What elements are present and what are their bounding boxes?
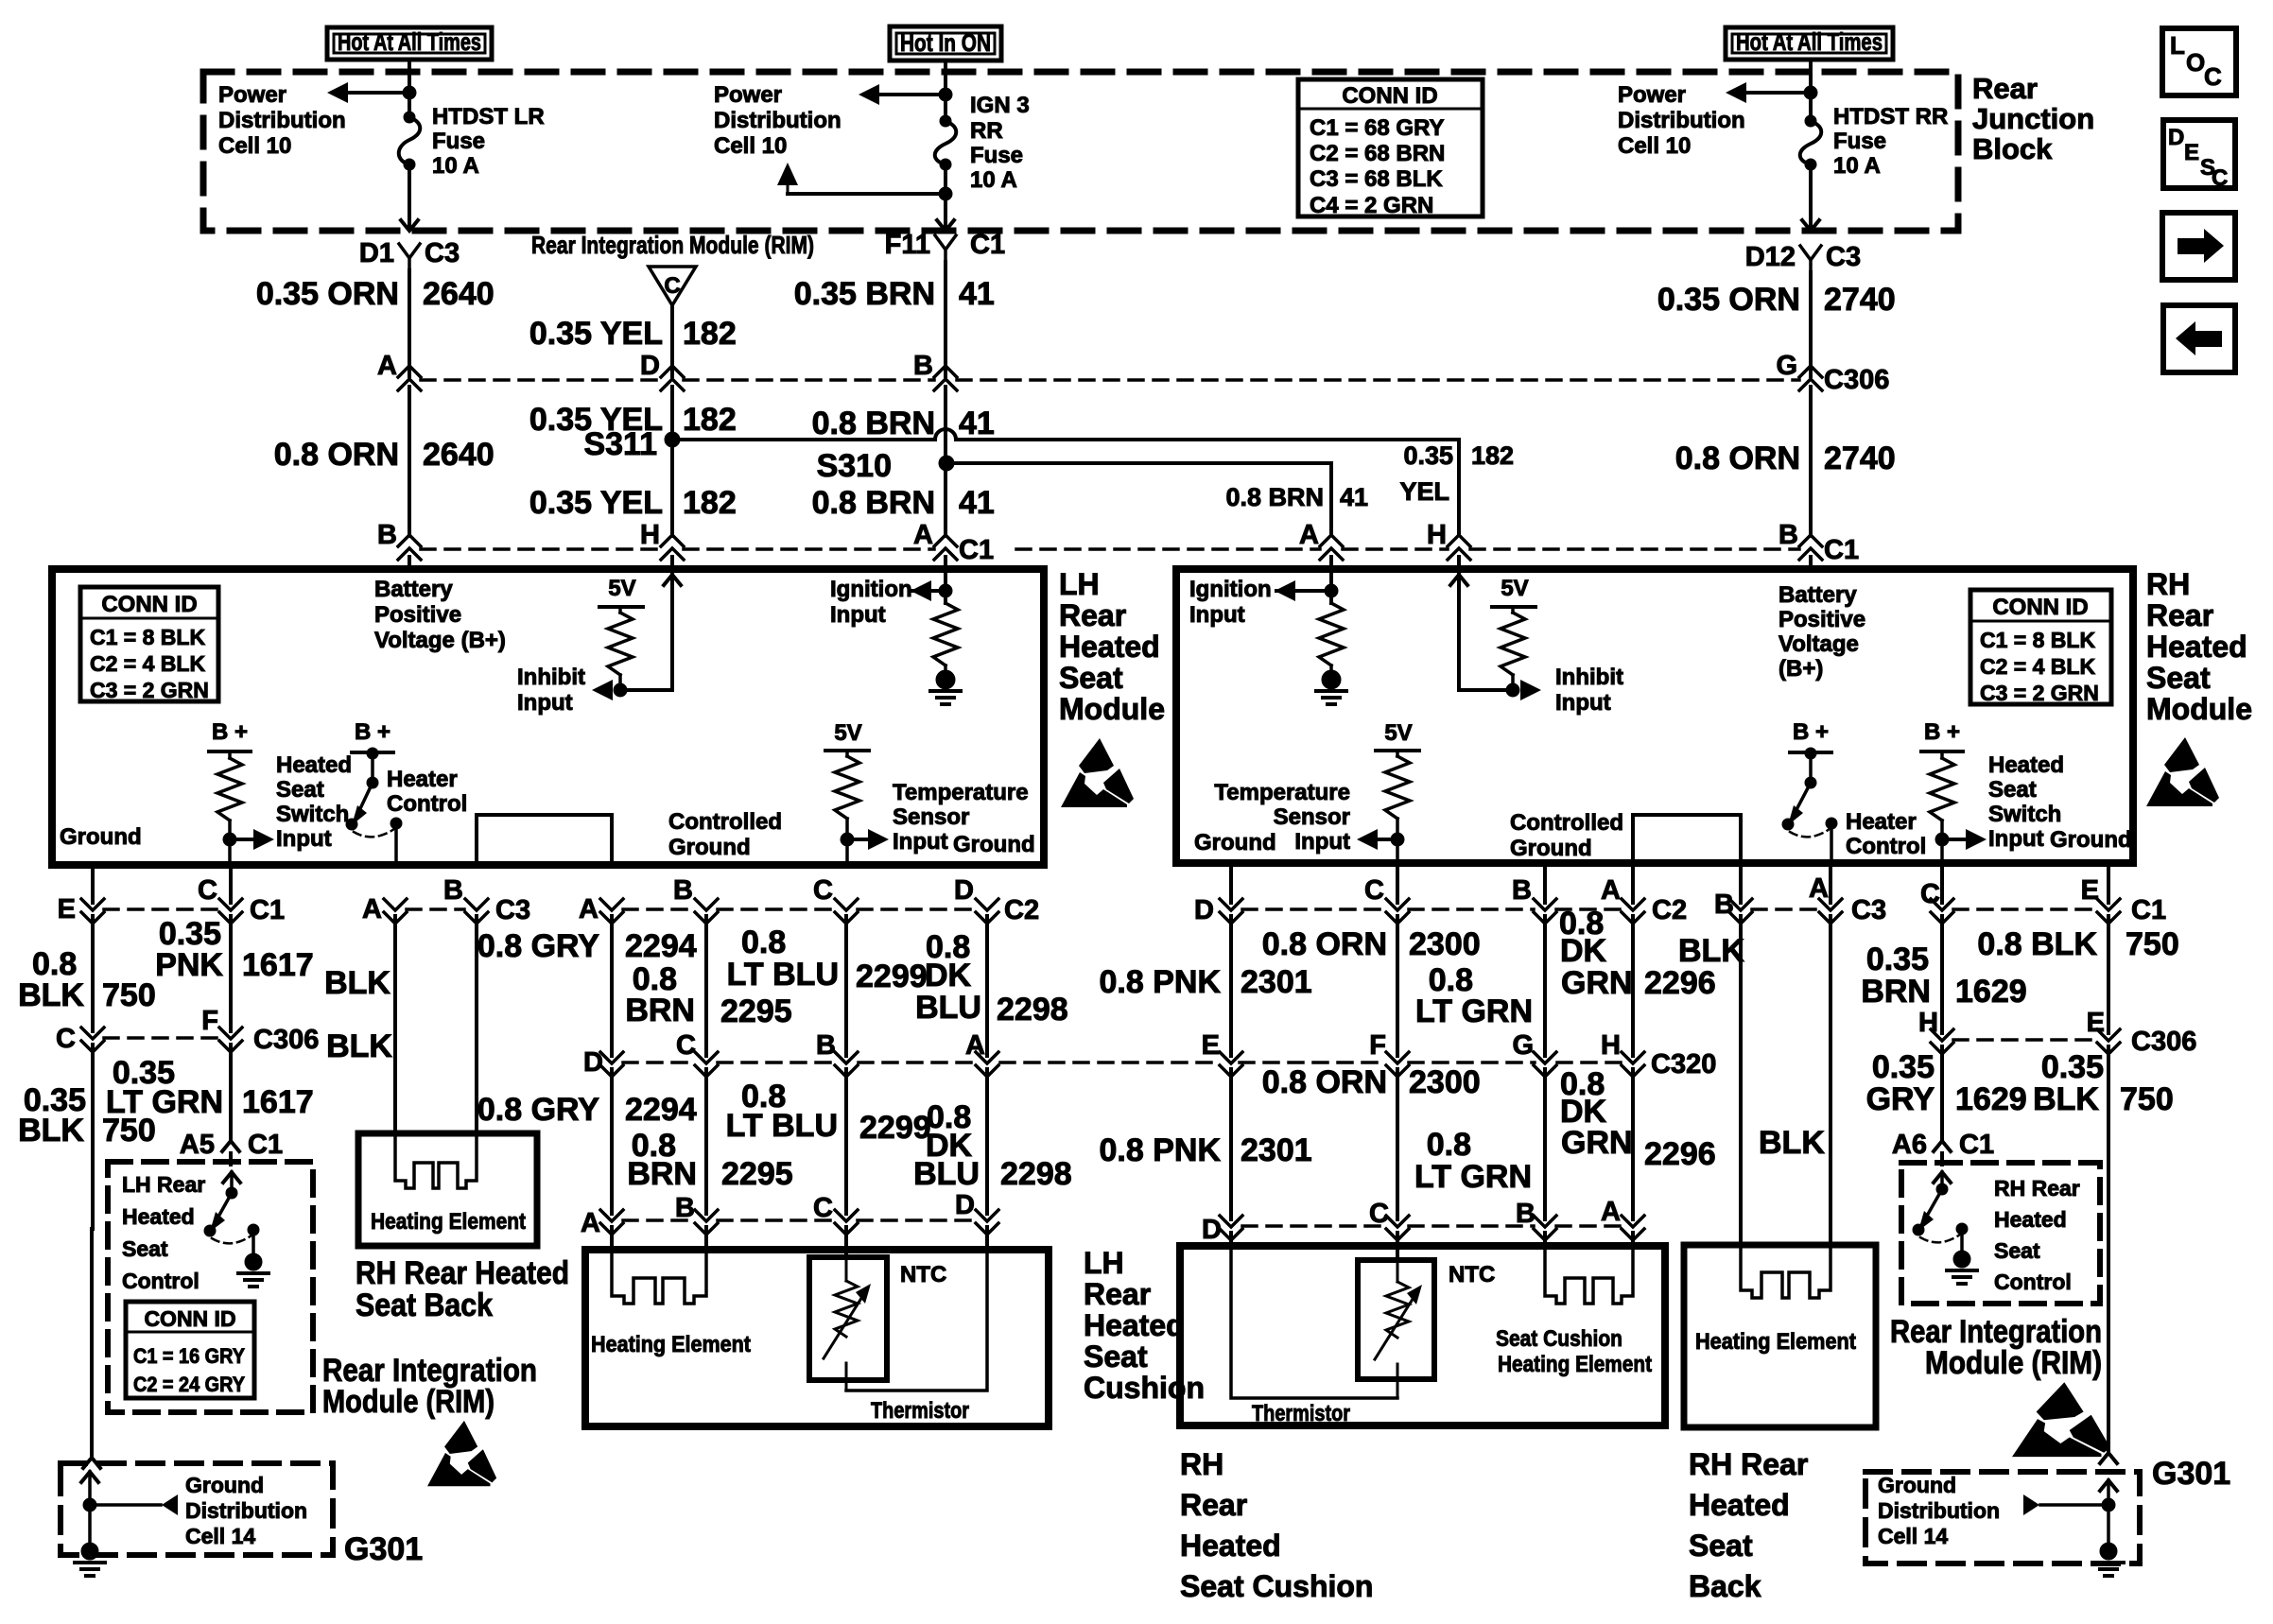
resistor: LH 5V temperature sensor pull-up xyxy=(825,720,869,865)
svg-text:Control: Control xyxy=(122,1269,200,1293)
svg-text:2640: 2640 xyxy=(423,276,495,312)
svg-text:Input: Input xyxy=(893,829,948,855)
svg-text:Power: Power xyxy=(1618,82,1686,108)
svg-text:Cell 10: Cell 10 xyxy=(1618,133,1691,159)
svg-text:0.35 ORN: 0.35 ORN xyxy=(256,276,399,312)
arrow+label: Temperature Sensor Input (RH) xyxy=(1214,780,1397,855)
svg-text:HTDST LR: HTDST LR xyxy=(432,104,545,130)
svg-text:B +: B + xyxy=(212,719,248,745)
svg-text:Thermistor: Thermistor xyxy=(1252,1401,1350,1426)
wire: RH controlled-ground loop xyxy=(1633,815,1741,865)
wire: 0.35 BRN 41 xyxy=(794,262,995,376)
thermistor box NTC (RH) xyxy=(1358,1260,1495,1379)
svg-text:Ignition: Ignition xyxy=(1189,577,1272,602)
svg-text:Fuse: Fuse xyxy=(432,129,485,154)
svg-text:Seat: Seat xyxy=(1988,777,2037,803)
svg-text:2740: 2740 xyxy=(1824,282,1896,318)
svg-text:2298: 2298 xyxy=(997,992,1068,1028)
svg-text:GRN: GRN xyxy=(1561,1125,1633,1161)
svg-text:LT BLU: LT BLU xyxy=(726,1108,838,1144)
svg-text:D: D xyxy=(955,1190,975,1220)
svg-text:Ground: Ground xyxy=(1194,830,1276,855)
svg-text:Heated: Heated xyxy=(1180,1529,1281,1563)
wire: 0.8 BRN 41 (S310 to C1) xyxy=(812,463,995,536)
svg-text:Seat: Seat xyxy=(2146,661,2211,695)
wire: 0.8 ORN 2300 (lower) xyxy=(1262,1064,1481,1219)
svg-text:2740: 2740 xyxy=(1824,441,1896,476)
wire: 0.8 GRY 2294 (upper) xyxy=(477,916,697,1056)
svg-text:Ground: Ground xyxy=(668,835,751,860)
wire: BLK (RH controlled ground loop) xyxy=(1678,865,1744,1245)
svg-text:Hot In ON: Hot In ON xyxy=(900,28,991,57)
svg-text:5V: 5V xyxy=(1501,576,1528,601)
svg-text:Power: Power xyxy=(714,82,782,108)
svg-text:Ground: Ground xyxy=(185,1473,264,1497)
wire: 0.8 GRY 2294 (lower) xyxy=(477,1069,697,1214)
resistor: RH heated seat switch pull-up xyxy=(1921,719,1963,865)
heating element (RH seat cushion) xyxy=(1545,1250,1633,1304)
svg-text:L: L xyxy=(2170,31,2185,60)
svg-text:2299: 2299 xyxy=(859,1110,931,1146)
svg-text:A: A xyxy=(1809,873,1829,904)
svg-text:NTC: NTC xyxy=(900,1262,946,1287)
wire: 0.35 BLK 750 (C306 to G301 right) xyxy=(2033,1046,2174,1453)
svg-text:41: 41 xyxy=(959,276,995,312)
splice S310 xyxy=(817,448,954,484)
svg-text:Seat Cushion: Seat Cushion xyxy=(1180,1569,1373,1603)
label: Rear Integration Module (RIM) top xyxy=(531,231,814,259)
svg-text:C3: C3 xyxy=(1851,895,1886,925)
svg-text:Positive: Positive xyxy=(1778,607,1865,632)
svg-text:0.35: 0.35 xyxy=(2041,1049,2104,1085)
svg-text:2300: 2300 xyxy=(1409,926,1481,962)
svg-text:RH Rear: RH Rear xyxy=(1689,1447,1808,1481)
svg-text:C: C xyxy=(664,273,680,299)
connector row C306 (in-line, top) xyxy=(377,351,1889,395)
svg-text:10 A: 10 A xyxy=(1833,153,1881,179)
svg-text:BLU: BLU xyxy=(915,990,981,1026)
svg-text:LT BLU: LT BLU xyxy=(727,957,839,993)
svg-text:Heated: Heated xyxy=(1689,1488,1790,1522)
svg-text:Battery: Battery xyxy=(1778,582,1857,608)
label: LH Rear Heated Seat Control xyxy=(122,1172,205,1293)
svg-text:Ground: Ground xyxy=(953,832,1035,857)
symbol: ESD sensitive device (left RIM) xyxy=(427,1421,496,1486)
svg-text:Seat: Seat xyxy=(1994,1238,2040,1263)
label: Power Distribution Cell 10 (middle) xyxy=(714,82,842,159)
svg-text:BRN: BRN xyxy=(625,993,695,1028)
svg-text:0.8 ORN: 0.8 ORN xyxy=(1262,926,1387,962)
svg-text:Input: Input xyxy=(1555,690,1611,716)
svg-text:Seat: Seat xyxy=(122,1236,168,1261)
connector row below LH module: C1 / C3 / C2 xyxy=(58,875,1039,925)
svg-text:A: A xyxy=(581,1208,600,1238)
svg-text:F11: F11 xyxy=(885,230,930,260)
svg-text:BLK: BLK xyxy=(1759,1125,1825,1161)
svg-text:Inhibit: Inhibit xyxy=(1555,665,1623,690)
svg-text:Heated: Heated xyxy=(122,1204,195,1229)
svg-text:(B+): (B+) xyxy=(1778,656,1823,682)
resistor: LH heated seat switch pull-up xyxy=(209,719,251,865)
svg-text:LT GRN: LT GRN xyxy=(1414,1159,1532,1195)
svg-text:Input: Input xyxy=(517,690,573,716)
svg-text:BLK: BLK xyxy=(326,1028,392,1064)
arrow+label: Temperature Sensor Input (LH) xyxy=(847,780,1029,855)
svg-text:Ground: Ground xyxy=(1510,836,1592,861)
label: RH Rear Heated Seat Cushion xyxy=(1180,1447,1373,1603)
wire: 0.35 YEL 182 (RIM to C306) xyxy=(529,305,737,376)
svg-text:B: B xyxy=(377,520,397,550)
wire: 0.8 BLK 750 (RH) xyxy=(1977,865,2178,1033)
connector: A6 C1 xyxy=(1892,1130,1994,1165)
label box: Hot At All Times (left) xyxy=(327,27,492,60)
svg-text:2301: 2301 xyxy=(1241,964,1312,1000)
svg-text:C1: C1 xyxy=(959,535,994,565)
node: switch input junction dot xyxy=(223,833,236,846)
label box: Hot At All Times (right) xyxy=(1726,27,1893,60)
wire: 0.8 BRN 2295 (lower) xyxy=(627,1069,792,1214)
resistor: LH 5V inhibit pull-up xyxy=(599,576,643,690)
ground network G301 (right) xyxy=(2023,1480,2124,1576)
svg-text:A6: A6 xyxy=(1892,1130,1927,1160)
svg-text:D: D xyxy=(2168,125,2184,150)
nav box: DESC xyxy=(2163,120,2235,191)
svg-text:B +: B + xyxy=(355,719,390,745)
component box: RH Rear Heated Seat Back heating element (left) xyxy=(358,1133,537,1246)
svg-text:2295: 2295 xyxy=(721,1156,793,1192)
svg-text:C1 = 68 GRY: C1 = 68 GRY xyxy=(1310,115,1445,141)
node: RH switch input junction dot xyxy=(1935,833,1949,846)
svg-text:F: F xyxy=(201,1006,218,1036)
wire: 0.8 BRN 41 (C306 to S310) xyxy=(812,387,995,457)
svg-text:750: 750 xyxy=(2120,1081,2174,1117)
svg-text:Hot At All Times: Hot At All Times xyxy=(338,27,481,56)
svg-text:0.8 PNK: 0.8 PNK xyxy=(1100,1132,1222,1168)
svg-text:G: G xyxy=(1512,1030,1534,1061)
label box: Hot In ON xyxy=(890,26,1001,60)
wire: 0.35 BRN 1629 xyxy=(1861,865,2026,1033)
svg-text:182: 182 xyxy=(1471,441,1514,470)
arrow+label: Inhibit Input (RH) xyxy=(1520,665,1623,716)
svg-text:Module (RIM): Module (RIM) xyxy=(1925,1345,2102,1381)
svg-text:Power: Power xyxy=(218,82,286,108)
wire: feed from Hot At All Times to HTDST LR fuse xyxy=(408,60,411,117)
svg-text:0.8: 0.8 xyxy=(1427,1127,1471,1163)
svg-text:0.35 BRN: 0.35 BRN xyxy=(794,276,935,312)
wire stubs into LH seat cushion xyxy=(612,1227,987,1257)
svg-text:1617: 1617 xyxy=(242,1084,314,1120)
connector row below RH module: C2 / C3 / C1 xyxy=(1194,873,2166,925)
svg-text:A: A xyxy=(1601,875,1621,906)
svg-text:E: E xyxy=(2184,140,2199,165)
svg-text:C2 = 4 BLK: C2 = 4 BLK xyxy=(1980,654,2095,679)
svg-text:CONN ID: CONN ID xyxy=(144,1306,235,1331)
component box: RH Rear Heated Seat Back heating element (right) xyxy=(1684,1245,1876,1427)
svg-text:Heating Element: Heating Element xyxy=(1695,1329,1856,1355)
wire: 0.8 ORN 2300 (upper) xyxy=(1262,865,1481,1056)
wire: IGN 3 RR fuse output xyxy=(937,164,954,231)
svg-text:Sensor: Sensor xyxy=(893,804,969,830)
label: Power Distribution Cell 10 (left) xyxy=(218,82,346,159)
svg-text:C2 = 24 GRY: C2 = 24 GRY xyxy=(133,1373,245,1396)
svg-text:H: H xyxy=(1918,1008,1938,1038)
svg-text:B +: B + xyxy=(1793,719,1829,745)
svg-text:LT GRN: LT GRN xyxy=(106,1084,223,1120)
svg-text:C: C xyxy=(198,875,217,906)
label: G301 (left) xyxy=(344,1531,423,1567)
svg-text:Module: Module xyxy=(2146,692,2252,726)
svg-text:C: C xyxy=(1369,1199,1389,1229)
switch: LH rear heated seat control xyxy=(204,1172,269,1287)
svg-text:E: E xyxy=(2081,875,2099,906)
svg-text:2298: 2298 xyxy=(1000,1156,1072,1192)
svg-text:2294: 2294 xyxy=(625,1092,697,1128)
svg-text:Seat: Seat xyxy=(1084,1339,1148,1373)
svg-text:Input: Input xyxy=(1294,829,1350,855)
svg-text:Cushion: Cushion xyxy=(1084,1371,1205,1405)
svg-text:Heated: Heated xyxy=(1059,630,1160,664)
svg-text:1617: 1617 xyxy=(242,947,314,983)
svg-text:Seat Back: Seat Back xyxy=(356,1287,493,1323)
symbol: ESD sensitive device (LH module) xyxy=(1061,738,1134,807)
svg-text:A: A xyxy=(1601,1197,1621,1227)
svg-text:C2: C2 xyxy=(1652,895,1687,925)
svg-text:B +: B + xyxy=(1924,719,1960,745)
svg-text:0.35: 0.35 xyxy=(1403,441,1453,470)
arrow+label: Ignition Input (RH) xyxy=(1189,577,1295,628)
svg-text:Controlled: Controlled xyxy=(1510,810,1623,836)
wire: 0.8 BRN 2295 (upper) xyxy=(625,916,791,1056)
svg-text:S310: S310 xyxy=(817,448,892,484)
wire: 0.35 ORN 2740 xyxy=(1657,272,1896,376)
wire: 0.8 ORN 2740 xyxy=(1675,387,1896,536)
arrow+label: Inhibit Input (LH) xyxy=(517,665,613,716)
switch: LH Heater Control xyxy=(346,719,467,865)
svg-text:C: C xyxy=(1364,875,1384,906)
svg-text:NTC: NTC xyxy=(1449,1262,1495,1287)
wire: ignition input net inside RH module xyxy=(1276,557,1331,603)
wire: ignition input net inside LH module xyxy=(911,557,946,603)
connector table: CONN ID (Rear Junction Block) xyxy=(1298,79,1483,218)
wire: 0.8 ORN 2640 xyxy=(274,387,495,536)
svg-text:E: E xyxy=(2087,1008,2105,1038)
node: RH temp sensor junction dot xyxy=(1391,833,1404,846)
svg-text:C1: C1 xyxy=(250,895,285,925)
svg-text:Module (RIM): Module (RIM) xyxy=(322,1384,495,1420)
wire: BLK (LH heater control to seat back element) xyxy=(324,916,395,1133)
wire: BLK (RH heater control to seat back element) xyxy=(1759,865,1831,1245)
resistor: RH 5V temperature sensor pull-up xyxy=(1376,720,1419,865)
pin label: Controlled Ground (RH) xyxy=(1510,810,1623,861)
control box: RH Rear Heated Seat Control (RIM) dashed xyxy=(1901,1163,2100,1304)
ground: RH ignition internal ground xyxy=(1316,670,1346,704)
svg-text:0.35 YEL: 0.35 YEL xyxy=(529,485,663,521)
svg-text:C: C xyxy=(1920,879,1940,909)
svg-text:0.8 BRN: 0.8 BRN xyxy=(1225,483,1324,511)
svg-text:Sensor: Sensor xyxy=(1274,804,1350,830)
svg-text:BLU: BLU xyxy=(913,1156,980,1192)
svg-text:Controlled: Controlled xyxy=(668,809,782,835)
svg-text:BLK: BLK xyxy=(18,977,84,1013)
wire: HTDST LR fuse output xyxy=(401,164,418,231)
svg-text:C3 = 2 GRN: C3 = 2 GRN xyxy=(90,678,209,702)
svg-text:Thermistor: Thermistor xyxy=(871,1398,969,1424)
svg-text:LH: LH xyxy=(1084,1246,1124,1280)
connector: A5 C1 xyxy=(180,1130,283,1165)
svg-text:G301: G301 xyxy=(344,1531,423,1567)
svg-text:C1: C1 xyxy=(970,230,1005,260)
wire: 0.35 ORN 2640 xyxy=(256,270,495,376)
svg-text:C: C xyxy=(2212,165,2228,191)
label: Rear Integration Module (RIM) (right) xyxy=(1890,1314,2102,1381)
label: Rear Integration Module (RIM) (left) xyxy=(322,1353,537,1420)
node: RH ignition junction dot xyxy=(1325,584,1338,597)
svg-text:PNK: PNK xyxy=(155,947,223,983)
svg-text:Fuse: Fuse xyxy=(970,143,1023,168)
control box: LH Rear Heated Seat Control (RIM) dashed xyxy=(108,1162,313,1412)
fuse: HTDST LR Fuse 10 A xyxy=(399,112,421,170)
svg-text:B: B xyxy=(675,1193,695,1223)
wire: 0.8 LT BLU 2299 (lower) xyxy=(726,1069,931,1214)
svg-text:750: 750 xyxy=(2126,926,2179,962)
terminal: D12 C3 at junction block xyxy=(1745,242,1861,272)
svg-text:Voltage (B+): Voltage (B+) xyxy=(374,628,506,653)
svg-text:CONN ID: CONN ID xyxy=(101,592,197,617)
svg-text:C2: C2 xyxy=(1004,895,1039,925)
pin label: Battery Positive Voltage (B+) xyxy=(374,557,506,653)
svg-text:B: B xyxy=(1516,1199,1536,1229)
svg-text:CONN ID: CONN ID xyxy=(1992,595,2088,620)
label: G301 (right) xyxy=(2152,1456,2230,1492)
node: ignition junction dot xyxy=(939,584,952,597)
svg-text:Distribution: Distribution xyxy=(185,1498,307,1523)
nav box: LOC xyxy=(2162,28,2236,95)
thermistor (LH) xyxy=(824,1261,871,1391)
wire: 0.35 YEL 182 (S311 to C1) xyxy=(529,440,737,536)
svg-text:1629: 1629 xyxy=(1955,974,2027,1010)
svg-text:A: A xyxy=(377,351,397,381)
svg-text:Ground: Ground xyxy=(60,824,142,850)
svg-text:Switch: Switch xyxy=(1988,802,2061,827)
wire: feed from Hot In ON to IGN 3 RR fuse xyxy=(944,60,947,121)
svg-text:RR: RR xyxy=(970,118,1003,144)
svg-text:Hot At All Times: Hot At All Times xyxy=(1736,27,1883,56)
pin label: Ground (RH left) xyxy=(1194,830,1276,855)
svg-text:D: D xyxy=(1202,1215,1222,1245)
svg-text:C: C xyxy=(813,1193,833,1223)
arrow+label: Ignition Input (LH) xyxy=(830,577,931,628)
nav box: right arrow xyxy=(2162,213,2235,280)
svg-text:C1: C1 xyxy=(1824,535,1859,565)
svg-text:Distribution: Distribution xyxy=(714,108,842,133)
junction block: Rear Junction Block dashed outline xyxy=(203,72,1958,231)
svg-text:C1 = 16 GRY: C1 = 16 GRY xyxy=(133,1344,245,1368)
svg-text:C1: C1 xyxy=(248,1130,283,1160)
wire: 0.8 LT GRN 2296 (upper) xyxy=(1415,865,1545,1056)
terminal: F11 C1 at junction block xyxy=(885,230,1005,262)
svg-text:YEL: YEL xyxy=(1399,477,1449,506)
connector row C320 (mid) xyxy=(583,1030,1716,1080)
arrow: power distribution reference (left) xyxy=(327,82,409,103)
svg-text:0.8 PNK: 0.8 PNK xyxy=(1100,964,1222,1000)
svg-text:Control: Control xyxy=(1994,1270,2072,1294)
svg-text:RH: RH xyxy=(1180,1447,1223,1481)
arrow+label: Heated Seat Switch Input (RH) xyxy=(1942,752,2064,852)
component box: LH Rear Heated Seat Cushion xyxy=(585,1250,1049,1426)
svg-text:DK: DK xyxy=(1560,933,1607,969)
node: junction dot on right feed xyxy=(1804,86,1817,99)
svg-text:C3: C3 xyxy=(495,895,530,925)
svg-text:RH Rear Heated: RH Rear Heated xyxy=(356,1255,569,1291)
svg-text:Temperature: Temperature xyxy=(893,780,1029,805)
svg-text:IGN 3: IGN 3 xyxy=(970,93,1030,118)
svg-text:1629: 1629 xyxy=(1955,1081,2027,1117)
svg-text:Input: Input xyxy=(830,602,886,628)
wire: 0.35 GRY 1629 (C306 to RIM A6) xyxy=(1866,1046,2027,1140)
label: Heating Element (LH cushion) xyxy=(591,1332,751,1357)
fuse: IGN 3 RR Fuse 10 A xyxy=(935,115,957,170)
terminal: RIM triangle C xyxy=(649,267,696,305)
label: Rear Junction Block xyxy=(1972,72,2094,165)
ground box: Ground Distribution Cell 14 (right) dashed xyxy=(1865,1472,2140,1564)
terminal: D1 C3 at junction block xyxy=(359,238,460,270)
svg-text:Rear Integration Module (RIM): Rear Integration Module (RIM) xyxy=(531,231,814,259)
wire: feed from Hot At All Times to HTDST RR fuse xyxy=(1809,60,1813,121)
svg-text:Seat: Seat xyxy=(276,777,324,803)
wire: BLK (LH controlled ground loop to seat back element) xyxy=(326,916,477,1133)
arrow: power distribution up-reference (middle) xyxy=(777,163,946,194)
module: RH Rear Heated Seat Module box xyxy=(1176,569,2133,863)
svg-text:G: G xyxy=(1776,351,1797,381)
svg-text:0.8 GRY: 0.8 GRY xyxy=(477,928,599,964)
wire stubs into RH seat cushion xyxy=(1231,1233,1633,1260)
svg-text:Temperature: Temperature xyxy=(1214,780,1350,805)
svg-text:Rear: Rear xyxy=(1972,72,2038,105)
node: temp sensor junction dot xyxy=(841,833,854,846)
svg-text:D12: D12 xyxy=(1745,242,1796,272)
svg-text:B: B xyxy=(673,875,693,906)
svg-text:C3: C3 xyxy=(425,238,460,268)
svg-text:Input: Input xyxy=(1189,602,1245,628)
svg-text:C: C xyxy=(2204,62,2222,91)
node: inhibit junction dot xyxy=(614,683,627,697)
module: LH Rear Heated Seat Module box xyxy=(52,569,1044,865)
pin label: Ground (LH right) xyxy=(953,832,1035,857)
svg-text:2294: 2294 xyxy=(625,928,697,964)
svg-text:Heating Element: Heating Element xyxy=(371,1209,526,1235)
svg-text:D: D xyxy=(583,1047,603,1078)
heating element (left seat back) xyxy=(395,1136,477,1188)
wire: 0.8 PNK 2301 (upper) xyxy=(1100,865,1312,1056)
ground: LH ignition internal ground xyxy=(930,670,961,704)
svg-text:2295: 2295 xyxy=(720,993,792,1029)
wire: 0.8 DK BLU 2298 (upper) xyxy=(915,916,1068,1056)
switch: RH Heater Control xyxy=(1782,719,1926,865)
svg-text:D: D xyxy=(954,875,974,906)
resistor: RH 5V inhibit pull-up xyxy=(1492,576,1536,690)
nav box: left arrow xyxy=(2163,305,2235,372)
svg-text:Positive: Positive xyxy=(374,602,461,628)
svg-text:0.8 BRN: 0.8 BRN xyxy=(812,485,935,521)
svg-text:B: B xyxy=(1778,520,1798,550)
svg-text:O: O xyxy=(2186,48,2205,77)
label: Ground Distribution Cell 14 (right) xyxy=(1878,1473,2000,1548)
svg-text:Rear: Rear xyxy=(1084,1277,1151,1311)
svg-text:H: H xyxy=(640,520,660,550)
svg-text:HTDST RR: HTDST RR xyxy=(1833,104,1948,130)
wire: 0.8 LT BLU 2299 (upper) xyxy=(727,916,928,1056)
svg-text:C2 = 4 BLK: C2 = 4 BLK xyxy=(90,651,205,676)
